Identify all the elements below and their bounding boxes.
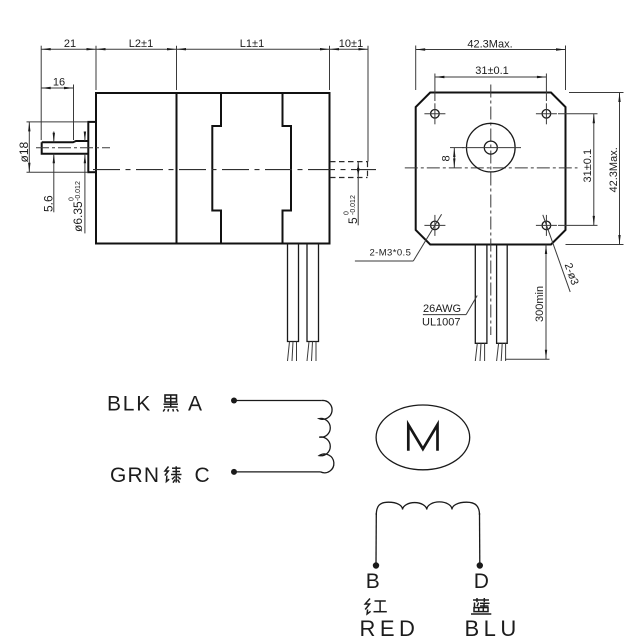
hole top-left [424,103,445,124]
dim ø6.35 0/-0.012 [69,132,86,234]
motor symbol M ellipse [376,405,470,470]
svg-text:21: 21 [64,38,76,50]
terminal dot B [373,562,379,568]
square body with chamfered corners [416,93,566,245]
hole bottom-right [536,215,557,236]
svg-text:B: B [366,570,380,593]
vertical centerline [490,85,492,336]
svg-text:16: 16 [53,76,65,88]
left stepped parting line [212,93,221,244]
dim 5 0/-0.012 rear shaft [344,162,361,226]
label 26AWG UL1007 with leader to wires [422,296,477,329]
wire to terminal B [375,513,377,565]
terminal dot D [477,562,483,568]
dim 31±0.1 top [435,65,547,101]
label 2-ø3 with leader to bottom-right hole [543,215,581,292]
svg-text:L1±1: L1±1 [240,38,264,50]
gearbox/body parting line [176,93,178,244]
coil phase B/D (horizontal, 4 bumps up) [376,502,479,515]
shaft circle [484,141,497,154]
motor body outline [96,93,330,244]
svg-text:UL1007: UL1007 [422,317,461,329]
dim 8 [441,148,465,168]
centerline of output shaft [36,147,110,149]
svg-text:L2±1: L2±1 [129,38,153,50]
dim 16 [41,76,73,140]
horizontal centerline [405,167,578,169]
glyph lan (blue) drawn strokes [471,598,491,614]
dim 5.6 [42,132,56,213]
coil phase A/C (vertical, 4 bumps right) [319,400,334,472]
svg-text:ø6.35: ø6.35 [71,201,85,232]
front view wire ribbon right [497,245,508,362]
dim L2±1 [96,38,177,90]
hole bottom-left [424,215,445,236]
boss horizontal centerline [462,147,521,149]
boss circle [467,123,516,172]
side view wire ribbon 1 [288,244,299,362]
svg-text:A: A [188,392,202,415]
svg-text:8: 8 [441,155,453,161]
dim ø18 [17,122,88,172]
rear shaft hidden outline [330,162,368,178]
svg-text:-0.012: -0.012 [75,181,82,201]
dim 300min [505,245,550,360]
dim 42.3Max. right [566,93,624,245]
wire to terminal D [479,513,481,565]
svg-text:C: C [195,464,210,487]
dim 21 [41,38,96,140]
front flange [88,122,96,172]
svg-text:BLK: BLK [107,392,152,415]
letter M [408,425,437,451]
terminal dot A [231,398,237,404]
svg-text:31±0.1: 31±0.1 [582,149,594,183]
right stepped parting line [283,93,292,244]
svg-text:300min: 300min [534,286,546,322]
front view wire ribbon left [475,245,487,362]
glyph lv (green) drawn strokes [165,466,182,482]
svg-text:D: D [474,570,489,593]
label 2-M3*0.5 with leader to bottom-left hole [355,214,442,261]
svg-text:RED: RED [360,616,420,640]
hole top-right [536,103,557,124]
dim 10±1 [330,38,369,162]
terminal dot C [231,469,237,475]
glyph hei (black) drawn strokes [163,395,178,412]
dim L1±1 [177,38,330,90]
svg-text:42.3Max.: 42.3Max. [467,38,512,50]
svg-text:2-ø3: 2-ø3 [562,261,581,286]
glyph hong (red) drawn strokes [365,599,387,615]
dim 42.3Max. top [416,38,566,90]
svg-text:2-M3*0.5: 2-M3*0.5 [370,247,412,258]
svg-text:42.3Max.: 42.3Max. [608,147,620,192]
svg-text:GRN: GRN [110,464,160,487]
svg-text:10±1: 10±1 [339,38,363,50]
shaft [42,141,89,154]
svg-text:ø18: ø18 [17,141,31,162]
wire C to coil [234,471,321,473]
wire A to coil [234,400,322,402]
svg-text:26AWG: 26AWG [423,303,461,315]
svg-text:BLU: BLU [465,616,521,640]
dim 31±0.1 right [558,114,598,226]
centerline of motor axis [93,169,376,171]
svg-text:5.6: 5.6 [42,195,56,212]
svg-text:-0.012: -0.012 [350,195,357,215]
svg-text:31±0.1: 31±0.1 [475,65,509,77]
svg-text:5: 5 [346,217,360,224]
side view wire ribbon 2 [307,244,319,362]
